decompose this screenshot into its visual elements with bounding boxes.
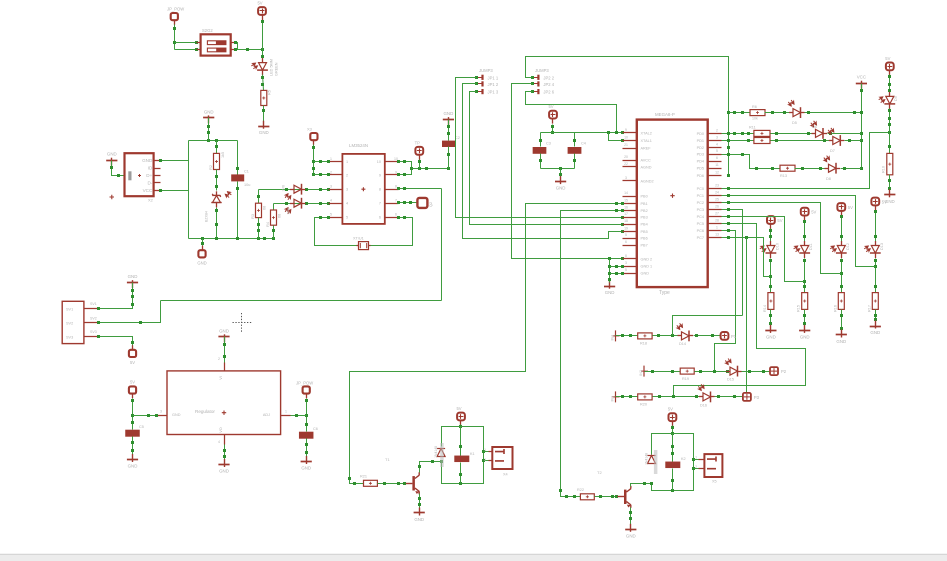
wire [804,259,806,293]
svg-text:5V: 5V [257,1,262,6]
svg-text:PC1: PC1 [697,194,704,198]
capacitor C6 [299,432,314,439]
svg-text:4: 4 [330,199,332,203]
capacitor C3 [533,147,547,154]
supply +5V (col5) [886,63,894,71]
pin JP2-3 [533,91,539,93]
svg-text:AGND: AGND [641,166,652,170]
wire [541,168,575,170]
diode D6 [812,133,816,135]
svg-text:68: 68 [263,206,267,210]
svg-text:9: 9 [379,173,381,177]
wire (T1 collector) [420,462,442,473]
wire [616,396,638,398]
wire [112,161,125,176]
svg-text:GND: GND [259,130,269,135]
svg-text:Type: Type [659,290,670,296]
svg-text:5: 5 [346,216,348,220]
wire [672,469,674,491]
svg-text:GND: GND [128,464,138,469]
connector X4 [492,447,512,469]
wire (p8) [722,238,771,277]
supply +5V (col3) [837,203,845,211]
svg-text:XT/U1: XT/U1 [353,237,364,241]
window scrollbar strip [0,555,947,561]
wire [399,162,412,175]
wire (p7) [715,231,736,372]
svg-text:JP2 4: JP2 4 [543,82,554,87]
svg-text:5V: 5V [777,218,782,223]
wire [399,202,418,204]
svg-text:JUMP3: JUMP3 [479,68,493,73]
resistor R16 [838,293,844,310]
svg-text:LED 5MM: LED 5MM [270,59,274,76]
wire [132,437,134,459]
svg-text:R21: R21 [360,475,367,479]
wire [616,335,638,337]
svg-text:D9: D9 [894,96,898,101]
wire [889,109,891,154]
svg-text:XTAL1: XTAL1 [641,139,652,143]
wire [841,168,862,170]
ground [625,529,636,531]
pin JP1-1 [477,77,483,79]
svg-text:2: 2 [716,128,718,132]
wire [653,335,681,337]
svg-text:GND: GND [641,272,650,276]
svg-text:K1: K1 [470,452,475,456]
svg-text:PD5: PD5 [697,167,704,171]
svg-text:Regulator: Regulator [195,409,215,414]
svg-text:T1: T1 [385,457,390,462]
ground (reg top) [218,336,229,338]
wire [161,190,189,192]
wire [875,310,877,325]
svg-text:JP_POW: JP_POW [296,381,313,386]
supply +5V (col4) [871,198,879,206]
wire [273,204,275,211]
svg-text:R22: R22 [577,488,584,492]
svg-text:GND: GND [766,334,776,339]
pin IN1 [615,330,617,341]
wire (p1) [722,133,890,189]
wire [224,337,226,363]
voltage regulator IC3 [167,371,281,435]
wire [694,459,699,461]
svg-text:PC5: PC5 [697,222,704,226]
svg-text:28: 28 [715,218,719,222]
wire (p8 branch to pad P3) [746,238,748,393]
svg-text:C6: C6 [313,427,318,431]
svg-text:GND: GND [204,109,214,114]
svg-text:11: 11 [715,163,719,167]
wire (p4) [722,210,743,316]
svg-text:2: 2 [484,458,486,462]
wire [175,49,197,51]
pad P3 [743,393,751,401]
wire (T2 emitter) [630,508,632,528]
svg-text:7: 7 [379,202,381,206]
svg-text:T2: T2 [597,470,602,475]
svg-text:GND: GND [556,186,566,191]
svg-text:R3: R3 [251,214,255,219]
wire [188,141,190,239]
wire (K1 frame) [442,427,484,484]
svg-text:4: 4 [716,143,718,147]
svg-text:GND: GND [219,469,229,474]
ground [127,459,138,461]
ground [301,461,312,463]
svg-text:VCC: VCC [143,188,153,193]
pad GND [202,239,204,246]
wire [771,133,815,135]
wire (GND rail) [189,238,274,240]
wire [189,140,238,142]
wire [463,84,623,239]
svg-text:IN3: IN3 [611,396,615,402]
ground [799,330,810,332]
svg-text:5V: 5V [811,210,816,215]
svg-text:GND: GND [172,413,181,417]
connector SV1 [62,301,84,343]
wire [470,92,623,225]
svg-text:1: 1 [484,448,486,452]
resistor R20 [638,394,652,400]
capacitor C1 [231,174,244,181]
wire [771,140,832,142]
diode D5 [789,112,793,114]
svg-text:R2: R2 [209,165,213,170]
wire [99,283,133,309]
svg-text:2: 2 [695,465,697,469]
wire (D+ net) [259,189,329,191]
svg-text:GND: GND [836,339,846,344]
wire [889,175,891,194]
svg-text:1: 1 [285,410,287,414]
svg-text:AREF: AREF [641,147,652,151]
resistor R4 [271,210,277,225]
svg-text:GND: GND [107,152,117,157]
svg-text:D15: D15 [727,378,734,382]
svg-text:4: 4 [218,440,220,444]
svg-text:R18: R18 [640,342,647,346]
svg-text:23: 23 [715,184,719,188]
wire [263,75,264,91]
wire [448,120,450,141]
wire (T1 emitter) [419,494,421,512]
wire [841,259,843,293]
svg-text:R11: R11 [749,126,756,130]
svg-text:ADJ: ADJ [263,413,270,417]
wire [765,112,793,114]
wire [770,310,772,330]
resistor R13 [780,165,795,171]
svg-text:BZX84: BZX84 [205,211,209,222]
wire [314,174,329,176]
svg-text:18: 18 [624,219,628,223]
wire (p5) [722,217,805,282]
supply +5V (xtal) [549,111,557,119]
resistor R6 [750,110,765,116]
wire [770,229,772,246]
svg-text:3V6: 3V6 [287,208,291,214]
wire [805,112,862,114]
svg-text:5: 5 [625,268,627,272]
pin JP2-1 [533,77,539,79]
svg-text:AVCC: AVCC [641,159,652,163]
svg-text:VO: VO [219,427,223,433]
svg-text:IN2: IN2 [639,370,643,376]
wire (T1 base net from PB1) [350,204,623,484]
zener diode D3 [290,189,294,191]
svg-text:1: 1 [330,157,332,161]
svg-text:GND: GND [605,290,615,295]
svg-text:GND: GND [197,260,206,265]
wire [574,133,576,147]
svg-text:4: 4 [346,202,348,206]
pad Q2 [417,198,427,208]
resistor R12 [754,138,770,144]
svg-text:PB1: PB1 [641,202,648,206]
svg-text:19: 19 [624,226,628,230]
wire [224,445,226,463]
svg-text:GND: GND [414,517,424,522]
wire [526,92,617,133]
wire [291,415,307,417]
wire (row1) [729,112,751,114]
resistor R10 [887,153,893,174]
pad 5V [129,350,136,357]
IC U1 [342,154,384,224]
svg-text:C4: C4 [581,142,586,146]
USB connector X2 [125,153,154,196]
svg-text:68: 68 [278,214,282,218]
svg-text:GND: GND [444,111,454,116]
wire [306,399,308,432]
capacitor C2 [442,141,455,147]
svg-text:P3: P3 [754,395,760,400]
svg-text:PB4: PB4 [641,223,648,227]
svg-text:2: 2 [218,357,220,361]
ground [414,512,425,514]
ground [127,282,138,284]
svg-text:5V: 5V [882,200,887,205]
svg-text:5V: 5V [548,104,553,109]
svg-text:5: 5 [625,233,627,237]
wire [828,133,862,135]
wire [216,141,218,154]
wire (gnd bus) [512,84,623,259]
wire [875,259,877,293]
ground (MCU gnd pins) [604,286,615,288]
svg-text:GND: GND [219,328,229,333]
svg-text:PB7: PB7 [641,244,648,248]
svg-text:PB6: PB6 [641,237,648,241]
svg-text:25: 25 [715,197,719,201]
svg-text:SV3: SV3 [90,330,97,334]
wire (p6) [674,224,806,397]
wire (rowA riser) [673,316,743,336]
svg-text:12: 12 [715,170,719,174]
wire [99,337,133,346]
svg-text:D7: D7 [830,149,835,153]
ground (USB shield) [106,160,117,162]
svg-text:1: 1 [695,456,697,460]
svg-text:D12: D12 [846,243,850,250]
svg-text:D14: D14 [679,342,686,346]
svg-text:17: 17 [624,212,628,216]
wire [484,460,489,462]
svg-text:5V: 5V [848,205,853,210]
svg-text:1: 1 [346,160,348,164]
wire [742,371,771,373]
svg-text:PD3: PD3 [697,153,704,157]
pad JP_POW (reg out) [303,386,310,393]
wire [412,168,449,170]
wire [460,427,462,456]
wire [263,106,265,125]
svg-text:GND: GND [301,466,311,471]
svg-text:9: 9 [625,128,627,132]
resistor R5 [261,90,267,105]
resistor R11 [754,130,770,136]
svg-text:R6: R6 [752,105,757,109]
svg-text:5: 5 [330,213,332,217]
wire [161,160,189,162]
svg-text:3: 3 [330,185,332,189]
svg-text:PD4: PD4 [697,160,704,164]
wire [175,42,197,44]
wire [889,75,891,97]
supply +5V [258,7,266,15]
zener diode D2 [216,191,218,195]
svg-text:3: 3 [716,136,718,140]
svg-text:3: 3 [625,176,627,180]
svg-text:P2: P2 [781,369,787,374]
svg-text:1N4148: 1N4148 [434,446,438,458]
svg-text:D10: D10 [775,243,779,250]
svg-text:D11: D11 [809,243,813,250]
resistor R15 [802,293,808,310]
wire [314,161,329,163]
svg-text:ID: ID [148,165,153,170]
wire [484,451,489,453]
supply +5V (K1) [457,413,465,421]
wire [695,371,730,373]
svg-text:PC0: PC0 [697,187,704,191]
svg-text:10: 10 [377,160,381,164]
wire [841,310,843,335]
svg-text:PC3: PC3 [697,208,704,212]
resistor R21 [364,480,378,486]
svg-text:5V: 5V [130,360,135,365]
svg-text:GND: GND [128,274,138,279]
pin JP1-2 [477,83,483,85]
capacitor C4 [568,147,582,154]
wire [216,208,218,239]
wire [609,133,623,141]
svg-text:8: 8 [395,185,397,189]
diode D8 [825,168,829,170]
transistor T2 [624,490,627,504]
wire [371,218,413,246]
svg-text:C5: C5 [139,425,144,429]
wire (T2 base net from PB2) [561,211,623,497]
transistor T1 [412,476,415,490]
pin JP2-2 [533,83,539,85]
wire [236,43,238,50]
svg-text:7: 7 [395,199,397,203]
microcontroller IC2 [637,120,708,288]
LED D12 [841,241,843,246]
ground [836,334,847,336]
svg-text:JP1 1: JP1 1 [488,75,499,80]
pin IN2 [643,366,645,377]
svg-text:D-: D- [147,180,152,185]
svg-text:R14: R14 [763,305,767,312]
wire [770,259,772,293]
svg-text:3: 3 [160,410,162,414]
svg-text:9: 9 [395,170,397,174]
svg-text:5V: 5V [885,56,890,61]
svg-text:D16: D16 [700,404,707,408]
svg-text:R4: R4 [266,222,270,227]
resistor R17 [872,293,878,310]
wire (T2 collector) [631,484,652,487]
svg-text:JP_POW: JP_POW [167,7,184,12]
svg-text:1N4148: 1N4148 [645,453,649,465]
svg-text:D8: D8 [826,177,831,181]
wire [237,141,239,175]
svg-text:3: 3 [346,188,348,192]
switch S2 [201,34,231,55]
pin JP1-3 [477,91,483,93]
LED D14 [678,335,682,337]
wire [861,84,863,169]
svg-text:AGND2: AGND2 [641,180,654,184]
wire (xtal rail) [541,132,623,134]
wire [315,218,357,246]
wire [672,434,674,462]
svg-text:JP1 3: JP1 3 [488,90,499,95]
svg-text:5V: 5V [130,380,135,385]
pad P2 [770,367,778,375]
svg-text:PB3: PB3 [641,216,648,220]
svg-text:K2: K2 [681,457,686,461]
wire [132,399,134,430]
svg-text:26: 26 [715,204,719,208]
wire [306,439,308,461]
wire [208,118,210,141]
pin IN3 [615,391,617,402]
LED D16 [699,396,703,398]
wire (D- net) [274,203,329,205]
svg-text:16: 16 [624,206,628,210]
ground [765,330,776,332]
svg-text:3: 3 [625,261,627,265]
wire [133,415,157,417]
supply +5V (K2) [669,413,677,421]
svg-text:TP: TP [415,140,421,145]
svg-text:JP2 6: JP2 6 [543,90,554,95]
wire [460,463,462,484]
wire [672,426,674,434]
svg-text:27: 27 [715,211,719,215]
svg-text:5V: 5V [456,406,461,411]
wire [574,154,576,169]
svg-text:XTAL2: XTAL2 [641,131,652,135]
wire (row2) [722,133,754,135]
